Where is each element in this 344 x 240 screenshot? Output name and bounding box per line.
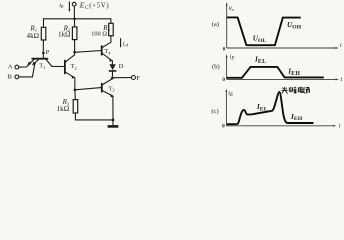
char jian — [282, 87, 288, 94]
svg-text:100 Ω: 100 Ω — [91, 31, 107, 38]
transistor T3 — [102, 79, 114, 98]
svg-text:ic4: ic4 — [123, 41, 129, 47]
transistor T4 — [102, 42, 113, 62]
resistor R2 — [72, 19, 77, 52]
resistor R4 — [109, 19, 114, 42]
svg-text:0: 0 — [222, 77, 225, 83]
wire R3 bottom to ground junction — [75, 119, 113, 121]
wire supply rail — [44, 18, 111, 20]
wire to terminal F — [112, 77, 131, 79]
node output F junction — [111, 77, 114, 80]
char liu — [304, 87, 310, 93]
transistor T2 — [65, 55, 75, 79]
node T2 emitter — [74, 89, 77, 92]
diode D — [109, 64, 115, 78]
wire T2 collector to T4 base — [75, 51, 102, 53]
waveform b curve — [227, 67, 324, 78]
label iE current arrow — [68, 2, 70, 12]
wire T3 emitter down — [112, 96, 114, 125]
label spike current (CJK glyph strokes) — [282, 87, 310, 94]
waveform a axes — [226, 2, 339, 49]
terminal A — [15, 65, 19, 69]
svg-text:(c): (c) — [211, 108, 218, 115]
wire T2 emitter to T3 base — [75, 88, 101, 90]
svg-text:1kΩ: 1kΩ — [58, 31, 71, 39]
node ground junction — [112, 119, 115, 122]
terminal F — [131, 76, 135, 80]
svg-text:(b): (b) — [212, 63, 220, 70]
node P — [42, 52, 45, 55]
wire T4 emitter to diode — [111, 61, 113, 65]
wire T2 emitter down — [74, 78, 76, 90]
char feng — [289, 87, 296, 94]
wire T2 emitter to R3 — [74, 90, 76, 100]
waveform c curve — [227, 92, 314, 124]
svg-text:4kΩ: 4kΩ — [26, 32, 39, 40]
wire A to T1 emitter — [19, 64, 30, 67]
waveform a curve — [227, 17, 301, 45]
supply terminal Ec — [72, 2, 76, 19]
svg-text:0: 0 — [222, 123, 225, 129]
waveform b axes — [226, 54, 339, 80]
char dian — [298, 87, 303, 93]
node T2 collector — [73, 51, 76, 54]
svg-text:0: 0 — [223, 46, 226, 52]
svg-text:1kΩ: 1kΩ — [57, 105, 70, 113]
wire T1 collector to T2 base — [52, 65, 64, 67]
svg-text:F: F — [136, 75, 140, 82]
node rail junction — [73, 18, 76, 21]
svg-text:P: P — [46, 49, 50, 56]
ground — [108, 125, 119, 128]
svg-text:(a): (a) — [212, 21, 219, 28]
terminal B — [15, 75, 19, 79]
transistor T1 — [27, 53, 51, 67]
svg-text:D: D — [119, 63, 124, 70]
svg-text:A: A — [8, 64, 13, 71]
wire T2 collector up — [74, 52, 76, 55]
wire B to T1 emitter — [19, 64, 35, 77]
svg-text:B: B — [8, 73, 13, 80]
label ic4 current arrow — [120, 39, 122, 49]
waveform c axes — [225, 89, 336, 127]
svg-text:EC(+5V): EC(+5V) — [79, 1, 110, 11]
resistor R3 — [73, 100, 78, 120]
resistor R1 — [41, 19, 46, 53]
